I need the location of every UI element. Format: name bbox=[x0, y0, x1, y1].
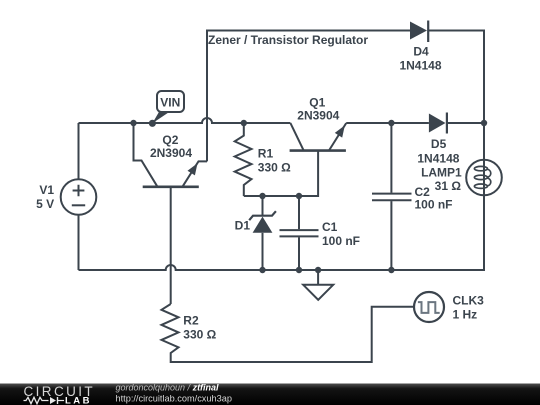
svg-text:C1: C1 bbox=[322, 220, 338, 234]
svg-text:VIN: VIN bbox=[160, 96, 180, 110]
svg-text:Q2: Q2 bbox=[162, 133, 178, 147]
svg-text:Zener / Transistor Regulator: Zener / Transistor Regulator bbox=[208, 33, 368, 47]
svg-text:1N4148: 1N4148 bbox=[399, 59, 441, 73]
svg-text:1N4148: 1N4148 bbox=[417, 151, 459, 165]
svg-text:2N3904: 2N3904 bbox=[150, 146, 192, 160]
svg-text:31 Ω: 31 Ω bbox=[435, 179, 462, 193]
svg-text:100 nF: 100 nF bbox=[415, 198, 453, 212]
svg-text:V1: V1 bbox=[39, 183, 54, 197]
svg-text:R2: R2 bbox=[183, 314, 199, 328]
svg-text:2N3904: 2N3904 bbox=[297, 109, 339, 123]
svg-text:http://circuitlab.com/cxuh3ap: http://circuitlab.com/cxuh3ap bbox=[116, 394, 232, 404]
svg-text:330 Ω: 330 Ω bbox=[258, 161, 291, 175]
svg-text:100 nF: 100 nF bbox=[322, 234, 360, 248]
svg-text:1 Hz: 1 Hz bbox=[453, 308, 478, 322]
svg-text:D4: D4 bbox=[413, 45, 429, 59]
svg-text:D1: D1 bbox=[235, 219, 251, 233]
svg-text:5 V: 5 V bbox=[36, 197, 54, 211]
svg-text:CLK3: CLK3 bbox=[453, 293, 485, 307]
svg-text:R1: R1 bbox=[258, 147, 274, 161]
svg-text:D5: D5 bbox=[431, 137, 447, 151]
svg-text:Q1: Q1 bbox=[309, 96, 325, 110]
svg-text:330 Ω: 330 Ω bbox=[183, 328, 216, 342]
svg-text:LAMP1: LAMP1 bbox=[421, 166, 462, 180]
svg-text:gordoncolquhoun / ztfinal: gordoncolquhoun / ztfinal bbox=[116, 383, 220, 393]
svg-text:LAB: LAB bbox=[65, 396, 92, 405]
